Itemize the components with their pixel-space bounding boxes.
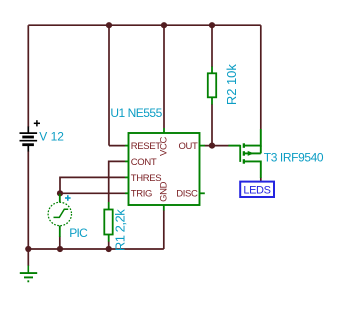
wire IC GND to ground rail [163, 210, 165, 249]
resistor R2 body [208, 73, 216, 97]
svg-text:LEDS: LEDS [243, 185, 270, 197]
T3 source stub + pin up [245, 129, 261, 146]
wire battery bottom to ground rail [27, 151, 29, 249]
U1 pin stub OUT (pin 3) [200, 145, 205, 147]
U1 pin stub DISC (pin 7) [200, 192, 205, 194]
svg-text:CONT: CONT [131, 157, 157, 168]
junction top rail / VCC [161, 22, 167, 28]
battery V1 plus sign [34, 120, 40, 126]
T3 channel bar top [243, 143, 245, 148]
T3 gate pin [228, 145, 240, 147]
wire R1 bottom [108, 242, 110, 250]
T3 channel bar bottom [243, 159, 245, 164]
junction OUT / R2 / gate [209, 143, 215, 149]
junction ground rail / R1 [106, 246, 112, 252]
svg-text:V 12: V 12 [39, 129, 64, 143]
wire ground stem [27, 249, 29, 266]
svg-text:PIC: PIC [69, 226, 88, 240]
svg-text:OUT: OUT [178, 141, 198, 152]
U1 pin stub TRIG (pin 2) [125, 192, 129, 194]
T3 drain stub + pin down [245, 161, 261, 178]
U1 pin stub VCC (pin 8) [163, 128, 165, 133]
svg-text:U1 NE555: U1 NE555 [110, 106, 162, 120]
U1 pin stub GND (pin 1) [163, 205, 165, 211]
svg-text:DISC: DISC [176, 189, 198, 200]
U1 pin stub RESET (pin 4) [125, 145, 129, 147]
resistor R2 pins [211, 67, 213, 74]
resistor R1 pins [108, 202, 110, 210]
svg-text:R1 2,2k: R1 2,2k [112, 209, 127, 251]
source PIC circle [48, 202, 71, 225]
U1 pin stub THRES (pin 6) [125, 176, 129, 178]
transistor T3 IRF9540 (P-MOSFET) [228, 129, 260, 178]
svg-text:GND: GND [158, 181, 169, 202]
wire mosfet source to top rail (right vertical) [260, 25, 262, 129]
source PIC step waveform [54, 209, 69, 217]
battery V1 symbol [20, 127, 38, 152]
resistor R1 body [104, 210, 112, 235]
wire RESET to top rail [108, 25, 110, 145]
junction top rail / R2 [209, 22, 215, 28]
wire TRIG [60, 192, 125, 194]
LEDS net label box [240, 182, 274, 197]
junction ground rail / battery / earth [25, 246, 31, 252]
wire top rail [28, 24, 260, 26]
wire VCC to top rail [163, 25, 165, 128]
junction THRES / TRIG / PIC [57, 190, 63, 196]
T3 channel bar middle [243, 151, 245, 156]
junction top rail / RESET [106, 22, 112, 28]
op-amp U1 NE555 box [129, 133, 200, 205]
svg-text:TRIG: TRIG [131, 189, 152, 200]
wire mosfet drain to LEDS [260, 178, 262, 182]
svg-text:VCC: VCC [158, 137, 169, 156]
svg-text:RESET: RESET [131, 141, 161, 152]
junction ground rail / PIC [57, 246, 63, 252]
wire OUT to gate [205, 145, 229, 147]
wire R2 top [211, 25, 213, 67]
source PIC plus sign [65, 195, 71, 201]
wire R2 bottom to OUT node [211, 104, 213, 146]
wire battery top (left vertical) [27, 25, 29, 127]
svg-text:R2 10k: R2 10k [224, 64, 239, 105]
ground symbol [20, 266, 37, 282]
svg-text:THRES: THRES [131, 173, 161, 184]
T3 gate plate [239, 145, 241, 162]
source PIC pins [59, 194, 61, 203]
U1 pin stub CONT (pin 5) [125, 160, 129, 162]
wire CONT to R1 [109, 161, 126, 202]
wire bottom ground rail [28, 248, 164, 250]
wire PIC bottom [59, 237, 61, 250]
T3 bulk stub with arrow [245, 152, 261, 154]
wire THRES to TRIG node [60, 177, 125, 193]
svg-text:T3 IRF9540: T3 IRF9540 [264, 151, 324, 165]
